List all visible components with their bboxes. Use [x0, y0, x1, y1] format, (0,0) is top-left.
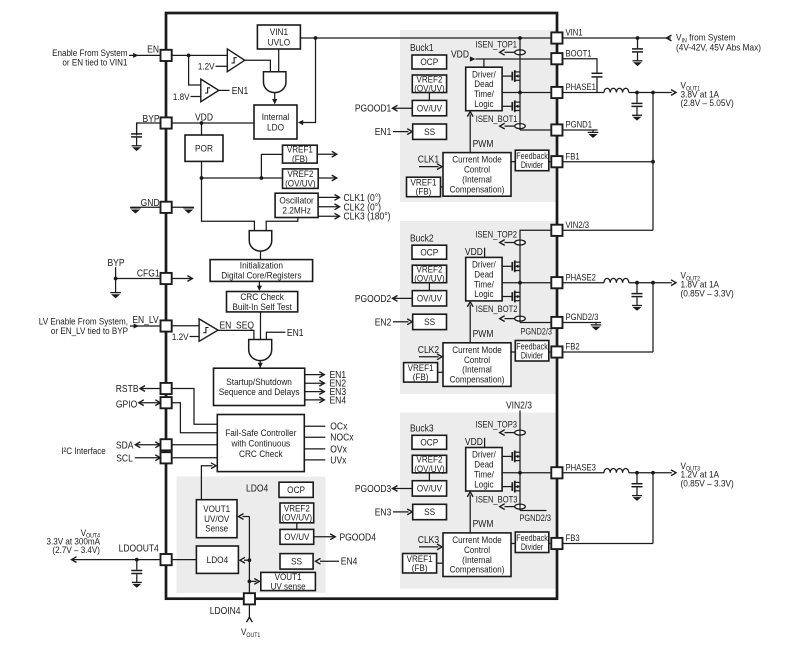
- Current Mode Control block Buck3: [443, 533, 511, 577]
- Feedback Divider block Buck3: [515, 532, 549, 553]
- arrowhead VOUT3: [671, 470, 676, 476]
- junction VOUT1 feedback: [651, 91, 655, 95]
- svg-text:with Continuous: with Continuous: [231, 438, 291, 449]
- svg-text:PHASE3: PHASE3: [566, 462, 597, 473]
- wire CMC to Feedback Divider Buck1: [511, 161, 515, 163]
- svg-text:PGOOD2: PGOOD2: [355, 293, 391, 304]
- pad FB3: [551, 538, 562, 549]
- arrowhead SDA right: [155, 442, 160, 448]
- wire VREF1 to CMC Buck2: [438, 371, 443, 373]
- svg-text:GPIO: GPIO: [116, 399, 137, 410]
- svg-text:PGND2/3: PGND2/3: [520, 512, 552, 523]
- wire inductor to VOUT1: [629, 92, 672, 94]
- svg-text:CLK3: CLK3: [418, 534, 439, 545]
- junction VIN1 chain: [518, 36, 522, 40]
- wire phase Buck2: [502, 282, 550, 284]
- svg-text:1.2V: 1.2V: [172, 332, 189, 343]
- pad PGND2/3: [551, 317, 562, 328]
- wire CRC to AND gate G3: [260, 312, 262, 340]
- svg-text:SCL: SCL: [116, 453, 133, 464]
- wire GND left: [130, 206, 160, 208]
- wire VIN2/3 pad to chain: [520, 230, 550, 322]
- wire BYP to CFG1 pad: [116, 278, 161, 280]
- wire EN_LV input: [130, 325, 160, 327]
- pad BOOT1: [551, 53, 562, 64]
- VREF2 block Buck2: [412, 265, 446, 283]
- ground BYP stub: [110, 293, 121, 299]
- pad EN: [161, 50, 172, 61]
- wire gate low Buck2: [502, 296, 512, 298]
- svg-text:PGOOD3: PGOOD3: [355, 483, 391, 494]
- svg-text:OCP: OCP: [420, 437, 438, 448]
- wire VREF2 output: [318, 177, 335, 179]
- arrowhead CLK1: [335, 195, 340, 201]
- svg-text:CLK1: CLK1: [418, 154, 439, 165]
- inductor L2: [604, 278, 629, 282]
- wire EN3 into SS: [393, 511, 409, 513]
- wire oscillator to AND gate G2: [266, 218, 298, 231]
- wire inductor to VOUT2: [629, 282, 672, 284]
- capacitor VOUT3: [632, 473, 643, 501]
- wire OCx: [304, 425, 325, 427]
- pad PHASE2: [551, 277, 562, 288]
- arrowhead CLK1: [437, 164, 442, 170]
- svg-text:EN3: EN3: [375, 507, 392, 518]
- wire PHASE2 to inductor: [563, 282, 604, 284]
- svg-text:Built-In Self Test: Built-In Self Test: [232, 301, 292, 312]
- arrowhead LDOIN4 up: [247, 617, 253, 622]
- svg-text:Oscillator: Oscillator: [279, 195, 313, 206]
- arrowhead into Startup block: [258, 363, 263, 368]
- OCP block Buck1: [412, 55, 447, 69]
- wire sense to FailSafe: [201, 466, 212, 500]
- junction VDD rail: [200, 121, 204, 125]
- OV/UV block Buck1: [412, 100, 446, 115]
- svg-text:PWM: PWM: [473, 138, 494, 149]
- svg-text:FB2: FB2: [566, 341, 580, 352]
- arrowhead into LDO4 block: [240, 557, 245, 563]
- wire comparator U1 output to AND gate: [245, 60, 271, 71]
- arrowhead EN4 into SS: [316, 558, 321, 564]
- svg-text:PWM: PWM: [473, 519, 494, 530]
- arrowhead VREF1 output: [332, 151, 337, 157]
- inductor L3: [604, 468, 629, 472]
- VREF2 LDO4 block: [280, 503, 314, 523]
- wire VREF1 to CMC Buck3: [437, 562, 443, 564]
- transistor QL3: [512, 481, 520, 493]
- wire Initialization to CRC: [258, 281, 260, 290]
- junction reference rail: [200, 176, 204, 180]
- wire FB2 to pad: [563, 351, 653, 353]
- Buck3 region background: [400, 413, 556, 589]
- wire riser to LDO4 block: [244, 559, 249, 561]
- arrowhead VOUT1: [671, 90, 676, 96]
- svg-text:UVx: UVx: [330, 455, 346, 466]
- svg-text:VIN2/3: VIN2/3: [566, 219, 590, 230]
- junction phase Buck1: [518, 91, 522, 95]
- svg-text:2.2MHz: 2.2MHz: [282, 205, 310, 216]
- arrowhead into Sense block: [239, 514, 244, 520]
- svg-text:Sense: Sense: [205, 523, 228, 534]
- transistor QL2: [512, 291, 520, 303]
- svg-text:OV/UV: OV/UV: [417, 483, 442, 494]
- wire OVx: [304, 448, 325, 450]
- wire PGND2/3 to ground: [563, 322, 601, 324]
- svg-text:FB3: FB3: [566, 532, 580, 543]
- arrowhead VOUT2: [671, 280, 676, 286]
- wire riser to Sense block: [243, 516, 250, 518]
- OV/UV block Buck3: [412, 481, 446, 496]
- junction LDOOUT4 cap: [135, 558, 139, 562]
- svg-text:EN1: EN1: [287, 327, 304, 338]
- pad GPIO: [161, 397, 172, 408]
- OCP block Buck2: [412, 245, 447, 259]
- wire PGOOD2: [394, 297, 412, 299]
- Initialization block: [210, 260, 313, 282]
- wire CLK2: [419, 356, 439, 358]
- svg-text:(OV/UV): (OV/UV): [285, 178, 316, 189]
- wire AND G1 output: [274, 93, 276, 104]
- svg-text:or EN_LV tied to BYP: or EN_LV tied to BYP: [51, 325, 128, 336]
- wire EN1 out: [305, 374, 323, 376]
- arrowhead into Internal LDO: [272, 99, 277, 104]
- wire gate low Buck1: [502, 105, 512, 107]
- VREF1 FB block Buck3: [403, 554, 437, 574]
- svg-text:(FB): (FB): [292, 153, 308, 164]
- svg-text:Digital Core/Registers: Digital Core/Registers: [221, 270, 302, 281]
- wire NOCx: [304, 436, 325, 438]
- wire EN3 out: [305, 391, 323, 393]
- wire SDA bidir: [137, 444, 159, 446]
- pad SDA: [161, 439, 172, 450]
- AND gate G2: [249, 231, 272, 251]
- wire power chain Buck1: [519, 38, 521, 130]
- arrowhead EN2 out: [319, 380, 324, 386]
- LDO4 block: [196, 546, 238, 573]
- svg-text:BOOT1: BOOT1: [566, 48, 592, 59]
- wire VIN external: [563, 37, 671, 39]
- pad VIN1: [551, 32, 562, 43]
- svg-text:OVx: OVx: [330, 444, 347, 455]
- junction riser LDO4: [248, 558, 252, 562]
- junction phase Buck3: [518, 471, 522, 475]
- wire 1.2V ref stub: [216, 65, 228, 67]
- svg-text:Logic: Logic: [474, 289, 494, 300]
- VOUT1 UV/OV Sense block: [196, 500, 237, 538]
- svg-text:Buck3: Buck3: [410, 423, 434, 434]
- Internal LDO block: [254, 105, 297, 139]
- svg-text:(FB): (FB): [416, 186, 432, 197]
- svg-text:EN4: EN4: [341, 556, 358, 567]
- wire EN1 to AND G3: [266, 332, 285, 339]
- svg-text:NOCx: NOCx: [330, 432, 354, 443]
- svg-text:Sequence and Delays: Sequence and Delays: [219, 387, 300, 398]
- current sense ISEN_BOT2: [500, 316, 526, 322]
- capacitor VIN input: [632, 38, 643, 66]
- wire gate low Buck3: [502, 486, 512, 488]
- wire PWM Buck3: [469, 495, 471, 533]
- Current Mode Control block Buck2: [443, 343, 511, 387]
- svg-text:(2.7V – 3.4V): (2.7V – 3.4V): [52, 544, 100, 555]
- wire rail to AND gate G2: [202, 178, 255, 231]
- wire VOUT1 rail to VIN2/3 pad: [563, 229, 653, 231]
- svg-text:RSTB: RSTB: [116, 383, 139, 394]
- pad CFG1: [161, 273, 172, 284]
- arrowhead PGOOD3: [393, 486, 398, 492]
- svg-text:UVLO: UVLO: [268, 37, 291, 48]
- pad PGND1: [551, 124, 562, 135]
- svg-text:LDO4: LDO4: [207, 554, 229, 565]
- wire AND G3 output: [259, 361, 261, 368]
- svg-text:I²C Interface: I²C Interface: [61, 445, 106, 456]
- wire PWM Buck2: [469, 305, 471, 343]
- capacitor bootstrap C-BOOT1: [592, 73, 603, 92]
- arrowhead into FailSafe bottom: [211, 463, 216, 469]
- VIN1 UVLO block: [257, 25, 300, 49]
- SS block Buck1: [413, 124, 447, 139]
- wire EN_LV to comparator: [172, 325, 199, 327]
- ground PGND1: [588, 130, 599, 138]
- SS LDO4 block: [280, 554, 313, 570]
- wire gate high Buck3: [502, 455, 512, 457]
- svg-text:LDOOUT4: LDOOUT4: [119, 543, 159, 554]
- svg-text:EN1: EN1: [232, 86, 249, 97]
- wire Feedback Divider to FB3 pad: [549, 543, 551, 545]
- arrowhead VOUT4: [72, 557, 77, 563]
- svg-text:(OV/UV): (OV/UV): [414, 273, 445, 284]
- arrowhead EN input: [133, 53, 138, 58]
- wire VOUT1 to FB1: [652, 93, 654, 231]
- wire GPIO to FailSafe: [172, 403, 218, 433]
- transistor QH2: [512, 260, 520, 272]
- wire EN input: [129, 54, 160, 56]
- wire CMC to Feedback Divider Buck3: [511, 543, 515, 545]
- wire comparator U2 output: [219, 89, 230, 91]
- Feedback Divider block Buck2: [515, 341, 549, 362]
- junction FB1 tap: [651, 160, 655, 164]
- svg-text:EN2: EN2: [375, 317, 392, 328]
- pad EN_LV: [161, 320, 172, 331]
- svg-text:Fail-Safe Controller: Fail-Safe Controller: [225, 427, 296, 438]
- comparator U2 1.8V EN1: [201, 79, 219, 102]
- OV/UV block Buck2: [412, 291, 446, 306]
- SS block Buck2: [413, 314, 447, 329]
- Buck1 region background: [400, 30, 556, 202]
- svg-text:PHASE1: PHASE1: [566, 81, 597, 92]
- svg-text:PWM: PWM: [473, 329, 494, 340]
- svg-text:OCP: OCP: [420, 57, 438, 68]
- wire EN2 into SS: [393, 321, 409, 323]
- wire VREF2 to OVUV Buck2: [428, 283, 430, 291]
- wire RSTB to FailSafe: [172, 389, 218, 425]
- svg-text:CLK3 (180°): CLK3 (180°): [344, 211, 391, 222]
- wire POR down: [201, 161, 203, 178]
- ground PGND2/3: [591, 323, 602, 331]
- svg-text:(0.85V – 3.3V): (0.85V – 3.3V): [681, 288, 734, 299]
- POR block: [185, 135, 223, 161]
- arrowhead EN3 out: [319, 389, 324, 395]
- inductor L1: [604, 88, 629, 92]
- junction VOUT3 feedback: [651, 471, 655, 475]
- arrowhead into UV sense block: [254, 579, 259, 585]
- pad FB1: [551, 156, 562, 167]
- wire CLK1 output: [318, 196, 338, 198]
- svg-text:Logic: Logic: [474, 98, 494, 109]
- svg-text:VIN2/3: VIN2/3: [506, 400, 532, 411]
- Driver Dead Time Logic block Buck3: [466, 448, 502, 492]
- arrowhead VREF2 output: [332, 175, 337, 181]
- junction VOUT2 cap: [635, 281, 639, 285]
- arrowhead SDA left: [135, 442, 140, 448]
- pad RSTB: [161, 383, 172, 394]
- svg-text:Compensation): Compensation): [450, 564, 505, 575]
- wire PGOOD1: [394, 107, 412, 109]
- svg-text:PGND2/3: PGND2/3: [521, 326, 553, 337]
- wire AND G2 output: [260, 251, 262, 260]
- VREF2 (OV/UV) block: [283, 169, 319, 189]
- svg-text:EN4: EN4: [330, 395, 347, 406]
- pad LDOOUT4: [161, 554, 172, 565]
- pad FB2: [551, 346, 562, 357]
- wire VREF2 to OVUV Buck3: [428, 473, 430, 481]
- svg-text:ISEN_BOT1: ISEN_BOT1: [476, 113, 518, 124]
- wire EN4 into SS: [320, 560, 339, 562]
- svg-text:CLK2: CLK2: [418, 344, 439, 355]
- pad GND: [161, 202, 172, 213]
- junction VOUT3 cap: [635, 471, 639, 475]
- Feedback Divider block Buck1: [515, 150, 549, 171]
- arrowhead EN1 out: [319, 372, 324, 378]
- wire VOUT3 to FB3: [652, 473, 654, 544]
- svg-text:LDOIN4: LDOIN4: [210, 606, 241, 617]
- arrowhead CLK3: [437, 544, 442, 550]
- svg-text:(4V-42V, 45V Abs Max): (4V-42V, 45V Abs Max): [676, 42, 761, 53]
- svg-text:PGND2/3: PGND2/3: [566, 311, 599, 322]
- pad BYP: [161, 117, 172, 128]
- arrowhead EN3 into SS: [407, 509, 412, 515]
- wire VIN1 rail to VIN1 pad: [300, 37, 550, 39]
- wire PGOOD3: [394, 488, 412, 490]
- wire LDOOUT4 to LDO4 block: [172, 559, 197, 561]
- wire SDA to FailSafe: [172, 444, 218, 446]
- wire LDOIN4 from VOUT1: [248, 605, 250, 618]
- svg-text:PGND1: PGND1: [566, 119, 593, 130]
- VREF1 FB block Buck1: [407, 177, 441, 197]
- comparator U1 1.2V EN: [227, 49, 244, 72]
- Driver Dead Time Logic block Buck1: [466, 67, 502, 111]
- svg-text:SDA: SDA: [116, 440, 134, 451]
- arrowhead EN_LV input: [134, 324, 139, 329]
- svg-text:Internal: Internal: [262, 112, 290, 123]
- wire FB3 to pad: [563, 543, 653, 545]
- wire SCL to FailSafe: [172, 457, 218, 459]
- svg-text:or EN tied to VIN1: or EN tied to VIN1: [62, 57, 127, 68]
- wire VREF1 to CMC Buck1: [441, 186, 444, 188]
- wire VDD to Driver Buck1: [483, 59, 485, 67]
- wire BOOT1 to cap: [563, 59, 597, 73]
- arrowhead CFG1: [187, 276, 192, 282]
- arrowhead GPIO right: [155, 400, 160, 406]
- arrowhead CLK3: [335, 213, 340, 219]
- junction VOUT2 feedback: [651, 281, 655, 285]
- AND gate G3: [249, 340, 272, 361]
- OCP LDO4 block: [279, 482, 313, 497]
- arrowhead PWM Buck2: [467, 302, 473, 307]
- transistor QH1: [512, 70, 520, 82]
- wire Feedback Divider to FB1 pad: [549, 161, 551, 163]
- wire EN to 1.8V comparator: [189, 55, 201, 85]
- svg-text:Divider: Divider: [521, 160, 544, 170]
- arrowhead GPIO left: [139, 400, 144, 406]
- junction VREF1 branch: [260, 176, 264, 180]
- Buck2 region background: [400, 221, 556, 394]
- ground GND right: [183, 207, 194, 213]
- arrowhead PGOOD2: [393, 296, 398, 302]
- svg-text:EN_LV: EN_LV: [132, 314, 159, 325]
- wire CLK2 output: [318, 206, 338, 208]
- svg-text:VDD: VDD: [465, 436, 483, 447]
- svg-text:(FB): (FB): [413, 372, 429, 383]
- wire VDD to POR: [201, 123, 203, 135]
- wire BYP to cap: [137, 123, 161, 136]
- svg-text:POR: POR: [195, 143, 213, 154]
- svg-text:(OV/UV): (OV/UV): [282, 512, 313, 523]
- svg-text:CRC Check: CRC Check: [239, 448, 283, 459]
- OV/UV LDO4 block: [280, 529, 314, 544]
- wire PWM Buck1: [469, 115, 471, 153]
- svg-text:Startup/Shutdown: Startup/Shutdown: [226, 376, 292, 387]
- svg-text:OCP: OCP: [420, 247, 438, 258]
- wire UVx: [304, 459, 325, 461]
- svg-text:UV sense: UV sense: [271, 581, 306, 592]
- junction VIN cap: [636, 36, 640, 40]
- wire PHASE3 to inductor: [563, 472, 604, 474]
- svg-text:OCx: OCx: [330, 421, 347, 432]
- junction phase Buck2: [518, 281, 522, 285]
- pad SCL: [161, 452, 172, 463]
- current sense ISEN_TOP2: [500, 240, 526, 246]
- wire VDD to Driver Buck2: [484, 248, 486, 258]
- wire PHASE1 to inductor: [563, 92, 604, 94]
- VREF2 block Buck3: [412, 455, 446, 473]
- arrowhead EN2 into SS: [407, 319, 412, 325]
- wire PGND1 to ground: [563, 129, 598, 131]
- wire Feedback Divider to FB2 pad: [549, 351, 551, 353]
- wire EN2 out: [305, 382, 323, 384]
- wire VREF2 to OVUV Buck1: [428, 93, 430, 101]
- wire gate high Buck1: [502, 75, 512, 77]
- svg-text:ISEN_BOT2: ISEN_BOT2: [476, 303, 518, 314]
- arrowhead CLK2: [437, 354, 442, 360]
- wire LDOOUT4 output: [73, 559, 160, 561]
- AND gate G1: [263, 72, 286, 93]
- CRC Check block: [227, 292, 298, 312]
- wire RSTB out: [142, 388, 161, 390]
- ground GND left: [130, 207, 141, 213]
- svg-text:ISEN_TOP2: ISEN_TOP2: [475, 229, 517, 240]
- svg-text:SS: SS: [424, 317, 435, 328]
- wire PGOOD4: [314, 536, 334, 538]
- wire CLK3 output: [318, 215, 338, 217]
- LDO4 region background: [177, 477, 326, 594]
- wire 1.8V ref stub: [191, 96, 201, 98]
- svg-text:SS: SS: [424, 126, 435, 137]
- wire BYP stub to CFG1: [115, 267, 117, 293]
- arrowhead VIN: [667, 35, 672, 41]
- current sense ISEN_BOT1: [500, 123, 526, 129]
- svg-text:PGOOD1: PGOOD1: [355, 103, 391, 114]
- arrowhead PGOOD1: [393, 105, 398, 111]
